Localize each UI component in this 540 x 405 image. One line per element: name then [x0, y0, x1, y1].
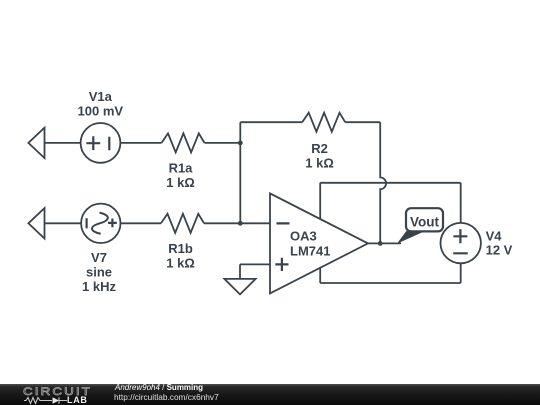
svg-text:sine: sine	[86, 265, 112, 280]
svg-text:R1a: R1a	[169, 161, 194, 176]
svg-text:1 kΩ: 1 kΩ	[305, 156, 334, 171]
svg-text:12 V: 12 V	[486, 243, 513, 258]
svg-text:1 kHz: 1 kHz	[82, 279, 116, 294]
svg-text:1 kΩ: 1 kΩ	[166, 175, 195, 190]
svg-text:R1b: R1b	[168, 241, 193, 256]
svg-text:V7: V7	[91, 250, 107, 265]
svg-text:V4: V4	[486, 228, 503, 243]
svg-text:100 mV: 100 mV	[78, 104, 124, 119]
svg-text:1 kΩ: 1 kΩ	[166, 255, 195, 270]
svg-text:OA3: OA3	[290, 229, 317, 244]
svg-text:Vout: Vout	[410, 214, 439, 229]
svg-text:V1a: V1a	[89, 89, 113, 104]
svg-text:LM741: LM741	[290, 244, 330, 259]
svg-text:R2: R2	[311, 141, 328, 156]
